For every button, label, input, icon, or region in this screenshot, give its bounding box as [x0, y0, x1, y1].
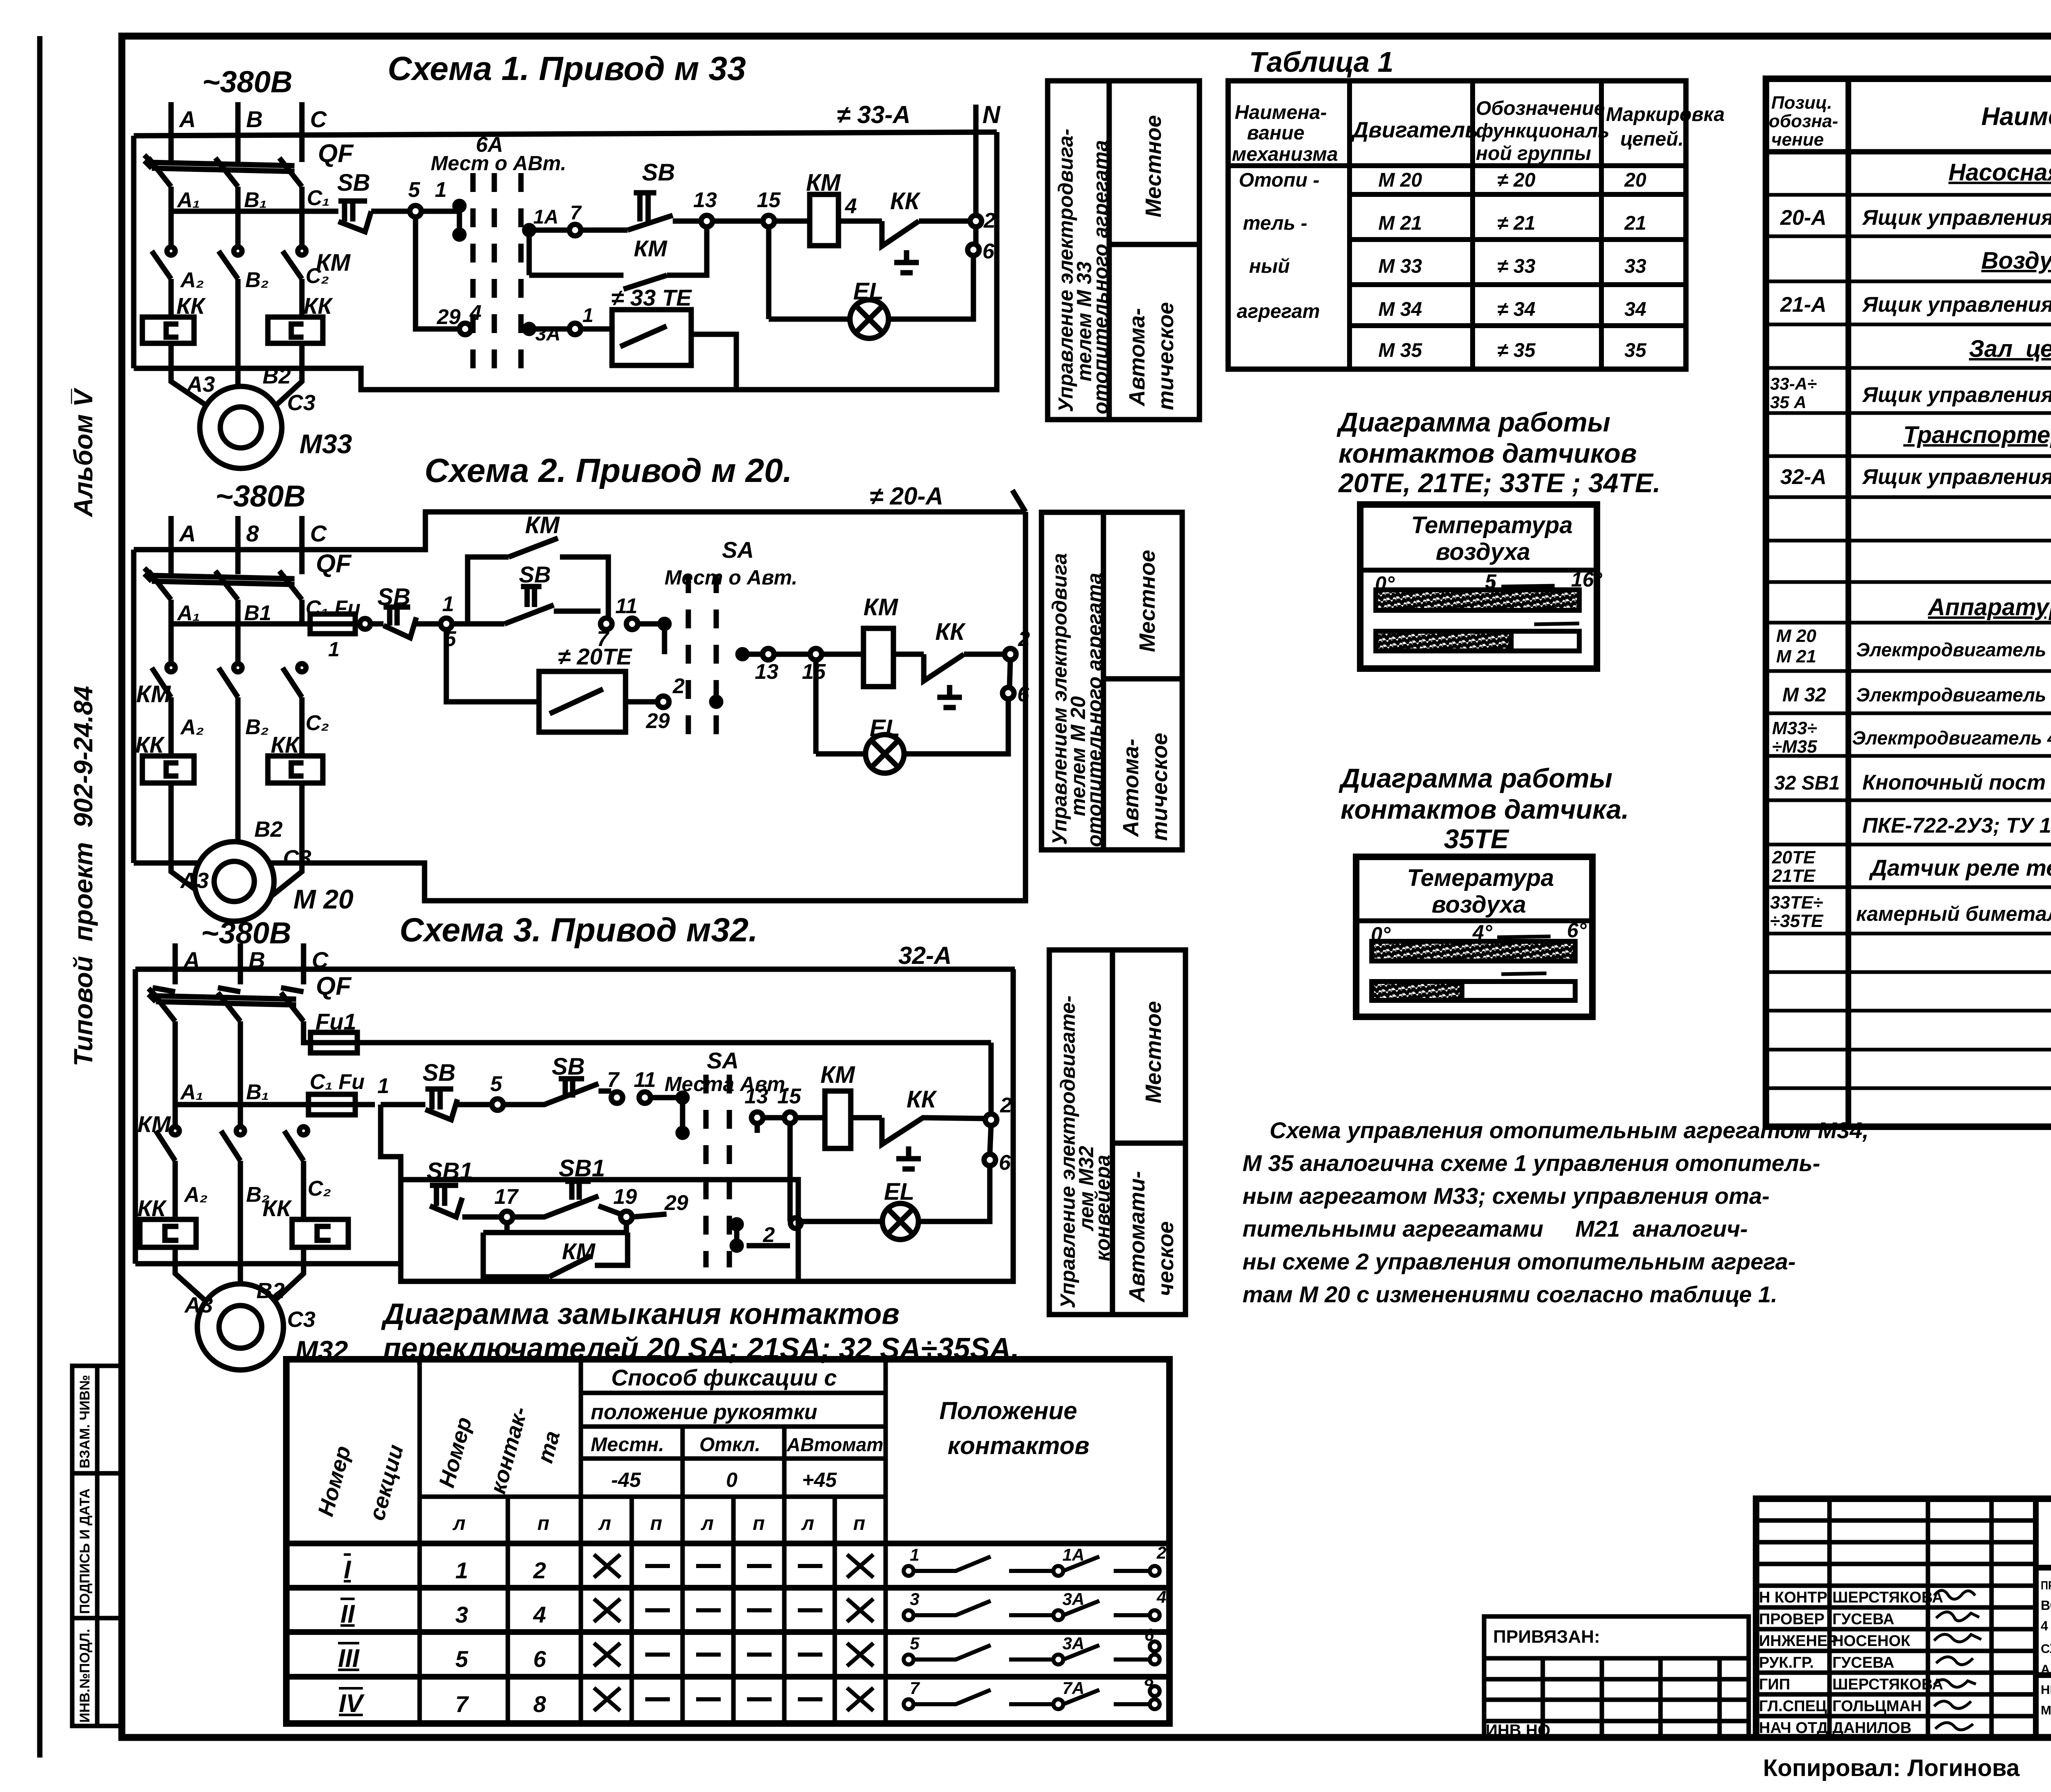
svg-text:2: 2	[672, 674, 685, 698]
CONTACTTABLE	[286, 1359, 1169, 1724]
svg-text:15: 15	[757, 188, 781, 212]
svg-text:SB1: SB1	[427, 1158, 473, 1185]
svg-text:А3: А3	[180, 868, 209, 893]
svg-text:НЫМИ АГРЕГАТАМИ М20, М21,: НЫМИ АГРЕГАТАМИ М20, М21,	[2041, 1682, 2051, 1697]
svg-text:обозна-: обозна-	[1769, 111, 1838, 131]
svg-text:32 SВ1: 32 SВ1	[1774, 772, 1840, 794]
svg-text:SB: SB	[552, 1053, 585, 1080]
wire 15 drop	[788, 1121, 793, 1221]
svg-text:Транспортерная галерея.: Транспортерная галерея.	[1903, 422, 2051, 448]
svg-text:п: п	[650, 1513, 662, 1534]
svg-text:1: 1	[435, 178, 447, 202]
svg-text:32-А: 32-А	[898, 942, 952, 969]
svg-text:КМ: КМ	[136, 681, 171, 708]
wire bottom bus	[135, 1261, 401, 1267]
svg-text:ной группы: ной группы	[1476, 143, 1591, 164]
svg-text:33ТЕ÷: 33ТЕ÷	[1770, 893, 1823, 913]
svg-text:В₂: В₂	[245, 715, 269, 739]
svg-text:Схема 2. Привод м 20.: Схема 2. Привод м 20.	[425, 452, 792, 489]
svg-text:ПРИВЯЗАН:: ПРИВЯЗАН:	[1493, 1627, 1600, 1647]
lamp EL	[790, 1178, 918, 1240]
node 7	[569, 224, 581, 236]
svg-text:функциональ: функциональ	[1476, 120, 1610, 142]
svg-text:Кнопочный пост управления: Кнопочный пост управления	[1862, 771, 2051, 794]
SCHEME1	[134, 50, 1199, 468]
svg-text:Автомати-: Автомати-	[1125, 1171, 1149, 1303]
svg-text:35ТЕ: 35ТЕ	[1444, 824, 1510, 854]
svg-text:КК: КК	[935, 619, 966, 645]
svg-text:цепей.: цепей.	[1620, 128, 1684, 150]
svg-text:С₂: С₂	[308, 1177, 331, 1201]
svg-text:М 20: М 20	[1776, 626, 1816, 646]
svg-text:3: 3	[455, 1602, 468, 1628]
TABLE1	[1228, 46, 1724, 369]
svg-text:QF: QF	[318, 139, 354, 168]
lamp EL	[816, 715, 904, 773]
svg-text:М33÷: М33÷	[1772, 718, 1817, 738]
svg-text:15: 15	[777, 1084, 802, 1108]
svg-text:Темература: Темература	[1407, 865, 1554, 891]
svg-text:29: 29	[664, 1191, 688, 1215]
node 13	[701, 215, 713, 227]
svg-text:л: л	[801, 1513, 814, 1534]
svg-text:л: л	[452, 1513, 466, 1534]
svg-text:≠ 20-А: ≠ 20-А	[870, 482, 943, 510]
LEFTCOL	[69, 387, 122, 1726]
svg-text:Автома-: Автома-	[1119, 739, 1143, 838]
svg-text:4 ЦЕНТРИФУГАМИ ОГШ-631К-02: 4 ЦЕНТРИФУГАМИ ОГШ-631К-02	[2041, 1619, 2051, 1633]
svg-text:Типовой проект 902-9-24.84: Типовой проект 902-9-24.84	[69, 686, 98, 1066]
svg-text:1: 1	[377, 1074, 389, 1098]
svg-text:SA: SA	[707, 1048, 739, 1073]
svg-text:7: 7	[607, 1068, 620, 1092]
svg-text:отопительного агрегата: отопительного агрегата	[1089, 140, 1112, 414]
svg-text:С₂: С₂	[306, 264, 329, 288]
motor M33	[186, 364, 352, 468]
node 6	[984, 1154, 996, 1166]
wire N drop	[973, 132, 979, 215]
svg-text:Электродвигатель 4А90L6У3, 1,5: Электродвигатель 4А90L6У3, 1,5кВт, ~380В	[1856, 684, 2051, 705]
svg-text:5: 5	[408, 178, 420, 202]
svg-text:SB: SB	[519, 562, 551, 587]
svg-text:17: 17	[494, 1185, 519, 1209]
node 7	[611, 1092, 623, 1103]
svg-text:п: п	[753, 1513, 765, 1534]
svg-text:QF: QF	[316, 550, 352, 578]
svg-text:С: С	[310, 520, 327, 546]
svg-text:+45: +45	[802, 1468, 837, 1491]
sensor diagram box 2	[1356, 857, 1592, 1017]
svg-text:А₂: А₂	[183, 1183, 208, 1207]
svg-text:35 А: 35 А	[1770, 393, 1807, 412]
wire left edge	[133, 969, 138, 1264]
svg-text:Мест о Авт.: Мест о Авт.	[665, 566, 797, 589]
fuse Fu (control)	[175, 1070, 365, 1115]
svg-text:ГОЛЬЦМАН: ГОЛЬЦМАН	[1832, 1698, 1922, 1715]
node 3A	[525, 324, 534, 333]
svg-text:КК: КК	[263, 1195, 292, 1221]
wire to SB	[360, 619, 370, 629]
svg-text:контактов датчиков: контактов датчиков	[1338, 438, 1637, 468]
svg-text:8: 8	[246, 520, 259, 546]
wire 13-15	[713, 219, 763, 224]
main stamp outline	[1756, 1499, 2051, 1737]
svg-text:Схема 3. Привод м32.: Схема 3. Привод м32.	[400, 911, 758, 949]
svg-text:4: 4	[469, 301, 482, 325]
fuse Fu	[171, 596, 361, 661]
svg-text:Позиц.: Позиц.	[1771, 93, 1832, 113]
svg-text:ПОДПИСЬ И ДАТА: ПОДПИСЬ И ДАТА	[77, 1488, 93, 1614]
svg-text:7: 7	[455, 1691, 469, 1717]
svg-text:20: 20	[1624, 169, 1647, 191]
document number cell	[2036, 1565, 2051, 1571]
svg-text:М 34: М 34	[1378, 299, 1422, 320]
svg-text:положение рукоятки: положение рукоятки	[591, 1400, 817, 1424]
svg-text:0: 0	[726, 1468, 738, 1491]
svg-text:В₁: В₁	[246, 1080, 269, 1104]
wire 15 drop to lamp rung	[766, 227, 772, 319]
push button SB (stop)	[337, 169, 371, 232]
svg-text:4: 4	[1156, 1587, 1166, 1607]
caption sensor 35TE	[1338, 763, 1629, 854]
node 11	[626, 618, 638, 630]
svg-text:Положение: Положение	[939, 1397, 1077, 1424]
svg-text:29: 29	[436, 305, 461, 329]
svg-text:Таблица 1: Таблица 1	[1249, 46, 1393, 78]
svg-text:В2: В2	[254, 817, 283, 842]
svg-text:КМ: КМ	[820, 1062, 856, 1088]
TITLEBLOCK	[1484, 1499, 2051, 1781]
header rows	[581, 1391, 886, 1395]
svg-text:НАЧ ОТД: НАЧ ОТД	[1759, 1719, 1828, 1737]
selector SA dashed lines	[688, 574, 716, 736]
svg-text:РУК.ГР.: РУК.ГР.	[1759, 1654, 1814, 1671]
svg-text:М 32: М 32	[1782, 684, 1826, 706]
sheet edge line	[37, 36, 43, 1758]
svg-text:6: 6	[982, 240, 995, 263]
node 6	[1003, 687, 1014, 699]
svg-text:М33: М33	[299, 429, 352, 459]
svg-text:÷35ТЕ: ÷35ТЕ	[1770, 911, 1824, 931]
svg-text:Диаграмма замыкания контактов: Диаграмма замыкания контактов	[381, 1298, 900, 1331]
column dividers	[418, 1359, 422, 1724]
privyazan table	[1484, 1616, 1749, 1739]
svg-text:3: 3	[910, 1589, 919, 1609]
project name cell	[2041, 1579, 2051, 1717]
caption sensors 20TE,21TE,33TE,34TE	[1336, 407, 1660, 498]
svg-text:Номер: Номер	[434, 1415, 477, 1491]
svg-text:А₂: А₂	[180, 268, 204, 292]
thermal relay KK heater (phase C)	[268, 732, 323, 863]
node 15	[763, 215, 774, 227]
svg-text:ШЕРСТЯКОВА: ШЕРСТЯКОВА	[1832, 1676, 1943, 1693]
svg-text:Местное: Местное	[1141, 1001, 1166, 1103]
wire to node 1	[355, 1102, 375, 1107]
svg-text:Н КОНТР: Н КОНТР	[1759, 1589, 1827, 1606]
svg-text:20ТЕ: 20ТЕ	[1772, 847, 1816, 867]
svg-text:пительными агрегатами М21: пительными агрегатами М21 аналогич-	[1242, 1216, 1748, 1242]
thermal relay KK heater (phase A)	[137, 1195, 196, 1264]
wire right rung	[738, 650, 747, 659]
node 5	[492, 1099, 503, 1110]
svg-text:SB1: SB1	[559, 1155, 605, 1182]
svg-text:там М 20 с изменениями соглас: там М 20 с изменениями согласно таблице …	[1242, 1281, 1777, 1307]
node B	[238, 943, 243, 984]
lamp EL	[769, 278, 888, 338]
svg-text:механизма: механизма	[1232, 144, 1338, 165]
svg-text:6: 6	[533, 1646, 546, 1672]
svg-text:N: N	[982, 101, 1001, 128]
node C	[299, 102, 305, 148]
svg-text:3А: 3А	[1062, 1589, 1085, 1609]
node C	[299, 516, 305, 564]
node 17	[501, 1211, 513, 1223]
SCHEME2	[134, 452, 1182, 921]
node 15	[810, 648, 822, 660]
svg-text:контак-: контак-	[486, 1404, 532, 1497]
svg-text:С3: С3	[287, 1307, 315, 1332]
thermal contact KK	[924, 619, 1005, 708]
body rows content	[338, 1556, 546, 1718]
contactor KM main contacts	[136, 664, 306, 863]
node C	[301, 943, 306, 984]
auxiliary contact KM low	[483, 1223, 628, 1277]
thermal relay KK heater (phase A)	[142, 293, 206, 343]
svg-text:3А: 3А	[1062, 1634, 1085, 1653]
svg-text:Электродвигатель 4А71В2У3 1,1к: Электродвигатель 4А71В2У3 1,1кВт; ~380В	[1852, 727, 2051, 749]
wire 13 drop	[755, 1123, 760, 1133]
svg-text:Ящик управления ЯУ5113-03А2Н: Ящик управления ЯУ5113-03А2Н	[1861, 206, 2051, 230]
svg-text:контактов: контактов	[948, 1432, 1089, 1459]
svg-text:агрегат: агрегат	[1237, 301, 1320, 322]
node 1-5	[441, 618, 452, 630]
node A	[173, 943, 178, 984]
svg-text:1А: 1А	[533, 206, 558, 228]
svg-text:тель -: тель -	[1243, 212, 1307, 234]
svg-text:воздуха: воздуха	[1432, 891, 1526, 918]
svg-text:ИНЖЕНЕР: ИНЖЕНЕР	[1759, 1632, 1838, 1650]
node 6	[968, 244, 979, 256]
svg-text:ПРОВЕР: ПРОВЕР	[1759, 1611, 1825, 1628]
svg-text:В: В	[246, 106, 263, 132]
svg-text:Номер: Номер	[313, 1443, 356, 1519]
contactor KM main contacts	[152, 247, 351, 368]
push button SB (stop)	[377, 584, 441, 638]
node 2	[970, 215, 982, 227]
push button SB	[423, 1059, 492, 1120]
svg-text:ГУСЕВА: ГУСЕВА	[1832, 1654, 1894, 1671]
contactor coil KM	[822, 594, 924, 687]
wire control tap	[171, 209, 338, 214]
svg-text:7А: 7А	[1062, 1678, 1085, 1698]
svg-text:≠ 34: ≠ 34	[1497, 299, 1535, 320]
thermal contact KK	[882, 1086, 985, 1169]
motor M32	[184, 1278, 348, 1370]
svg-text:Обозначение: Обозначение	[1476, 98, 1605, 119]
svg-text:Температура: Температура	[1411, 512, 1573, 539]
svg-text:ГЛ.СПЕЦ.: ГЛ.СПЕЦ.	[1759, 1698, 1831, 1715]
svg-text:В2: В2	[256, 1278, 285, 1303]
node 15	[784, 1112, 796, 1123]
svg-text:вание: вание	[1247, 122, 1304, 144]
push button SB1	[427, 1158, 501, 1217]
svg-text:тическое: тическое	[1153, 302, 1178, 410]
svg-text:Схема 1. Привод м 33: Схема 1. Привод м 33	[388, 50, 746, 87]
wire phase drops	[171, 600, 302, 663]
wire left edge	[131, 136, 137, 368]
thermal contact KK	[882, 188, 970, 273]
SCHEME3	[135, 911, 1185, 1370]
breaker QF	[144, 139, 354, 187]
svg-text:КК: КК	[907, 1086, 937, 1113]
svg-text:ческое: ческое	[1153, 1221, 1178, 1296]
push button SB start	[503, 1053, 611, 1105]
svg-text:13: 13	[745, 1084, 768, 1108]
svg-text:11: 11	[634, 1068, 656, 1092]
svg-text:I: I	[344, 1556, 352, 1584]
wire 29-4 branch	[416, 217, 459, 329]
control mode box scheme3	[1049, 950, 1185, 1315]
svg-text:2: 2	[1156, 1543, 1166, 1562]
svg-text:5: 5	[910, 1634, 920, 1653]
svg-text:Наимена-: Наимена-	[1235, 102, 1327, 123]
svg-text:Схема управления отопительным: Схема управления отопительным агрегатом …	[1270, 1117, 1869, 1143]
svg-text:НОСЕНОК: НОСЕНОК	[1832, 1632, 1911, 1650]
svg-text:л: л	[701, 1513, 714, 1534]
svg-text:Местное: Местное	[1135, 550, 1160, 652]
svg-text:М 20: М 20	[293, 884, 354, 914]
svg-text:÷М35: ÷М35	[1772, 737, 1817, 757]
svg-text:8: 8	[533, 1691, 546, 1717]
node 13	[763, 648, 774, 660]
sensor diagram box 1	[1360, 504, 1603, 669]
svg-text:Наименование: Наименование	[1981, 103, 2051, 131]
node 5	[410, 205, 421, 217]
temperature switch 20TE box	[446, 630, 721, 733]
wire top bus	[135, 967, 1015, 972]
svg-text:секции: секции	[365, 1442, 409, 1523]
svg-text:5: 5	[490, 1072, 502, 1096]
svg-text:SB: SB	[423, 1059, 456, 1086]
svg-text:SB: SB	[337, 169, 370, 196]
SPECTABLE	[1766, 79, 2051, 1127]
svg-text:1: 1	[910, 1545, 919, 1564]
svg-text:Копировал: Логинова: Копировал: Логинова	[1763, 1755, 2020, 1781]
svg-text:М 21: М 21	[1378, 212, 1422, 234]
svg-text:~380В: ~380В	[215, 479, 306, 513]
svg-text:11: 11	[615, 594, 637, 618]
svg-text:SA: SA	[722, 537, 754, 563]
svg-text:Маркировка: Маркировка	[1606, 104, 1724, 126]
svg-text:2: 2	[983, 209, 996, 233]
svg-text:Ящик управления ЯУ5113-03А2М: Ящик управления ЯУ5113-03А2М	[1861, 465, 2051, 489]
svg-text:М 21: М 21	[1776, 646, 1816, 667]
svg-text:В₂: В₂	[245, 268, 269, 292]
holding contact KM box	[452, 512, 608, 624]
svg-text:20ТЕ, 21ТЕ; 33ТЕ ; 34ТЕ.: 20ТЕ, 21ТЕ; 33ТЕ ; 34ТЕ.	[1338, 468, 1660, 498]
svg-text:Датчик реле температуры: Датчик реле температуры	[1869, 855, 2051, 881]
svg-text:КМ: КМ	[525, 512, 560, 539]
node 2	[1005, 648, 1016, 660]
svg-text:ным агрегатом М33; схемы упр: ным агрегатом М33; схемы управления ота-	[1242, 1183, 1770, 1209]
node A	[169, 516, 174, 564]
wire phase drops to KM	[171, 187, 302, 246]
wire 13 drop to KM aux	[667, 227, 707, 275]
temperature switch 33TE box	[611, 285, 736, 390]
svg-text:ГУСЕВА: ГУСЕВА	[1832, 1611, 1894, 1628]
svg-text:Местное: Местное	[1141, 115, 1166, 217]
svg-text:Альбом V̅: Альбом V̅	[69, 387, 98, 518]
svg-text:≠ 33 ТЕ: ≠ 33 ТЕ	[611, 285, 692, 310]
svg-text:29: 29	[646, 709, 670, 733]
svg-text:Откл.: Откл.	[699, 1434, 761, 1456]
svg-text:Двигатель: Двигатель	[1351, 118, 1478, 142]
svg-text:Зал центрифуг.: Зал центрифуг.	[1969, 336, 2051, 362]
svg-text:п: п	[853, 1513, 865, 1534]
svg-text:≠ 20: ≠ 20	[1497, 169, 1535, 191]
svg-text:С: С	[310, 106, 327, 132]
svg-text:А: А	[178, 106, 196, 132]
svg-text:тическое: тическое	[1147, 733, 1172, 841]
svg-text:Ящик управления ЯУ 5113-03А2Н: Ящик управления ЯУ 5113-03А2Н	[1861, 293, 2051, 317]
svg-text:≠ 35: ≠ 35	[1497, 340, 1536, 361]
svg-text:В₁: В₁	[244, 188, 267, 212]
svg-text:А₁: А₁	[176, 188, 200, 212]
svg-text:-45: -45	[611, 1468, 641, 1491]
stage cells	[2036, 1568, 2051, 1737]
svg-text:отопительного агрегата: отопительного агрегата	[1083, 573, 1106, 847]
svg-text:IV: IV	[339, 1689, 365, 1718]
PARA	[1242, 1117, 1869, 1307]
svg-text:2: 2	[533, 1557, 546, 1583]
wire 3A to TE	[529, 326, 569, 332]
svg-text:≠ 33-А: ≠ 33-А	[837, 101, 911, 128]
svg-text:чение: чение	[1771, 130, 1824, 150]
wire 15 drop	[813, 660, 819, 754]
svg-text:С₁ Fu: С₁ Fu	[310, 1070, 365, 1094]
contactor coil KM	[796, 1062, 882, 1148]
svg-text:камерный биметаллический ДТКБ: камерный биметаллический ДТКБ -53.	[1856, 902, 2051, 925]
svg-text:Электродвигатель 4А71В2У3, 1,1: Электродвигатель 4А71В2У3, 1,1кВт,~380В	[1856, 639, 2051, 660]
svg-text:Ящик управления ЯУ5125-03Б2Н: Ящик управления ЯУ5125-03Б2Н	[1861, 383, 2051, 407]
svg-text:ны схеме 2 управления отопите: ны схеме 2 управления отопительным агрег…	[1242, 1249, 1795, 1274]
contactor KM main contacts	[137, 1111, 308, 1264]
svg-text:7: 7	[570, 202, 582, 224]
svg-text:SB: SB	[642, 159, 675, 186]
svg-text:С₂: С₂	[306, 711, 329, 735]
svg-text:М33÷М35 И КОНВЕЙЕРОМ М 32: М33÷М35 И КОНВЕЙЕРОМ М 32	[2041, 1703, 2051, 1717]
svg-text:С3: С3	[287, 390, 315, 415]
svg-text:АВтомат.: АВтомат.	[786, 1434, 888, 1455]
svg-text:6: 6	[999, 1151, 1011, 1175]
push button SB1 second	[513, 1155, 621, 1217]
fuse Fu1	[304, 1009, 991, 1053]
thermal relay KK heater (phase A)	[135, 732, 194, 863]
contactor coil KM	[774, 169, 882, 246]
header texts	[313, 1365, 1089, 1534]
svg-text:Способ фиксации с: Способ фиксации с	[611, 1365, 837, 1390]
svg-text:~380В: ~380В	[202, 65, 292, 99]
svg-text:ВОЗДУХОДУВКАМИ ТВ-80-1,6 И: ВОЗДУХОДУВКАМИ ТВ-80-1,6 И	[2041, 1598, 2051, 1613]
svg-text:1: 1	[328, 638, 340, 661]
X and dash marks	[594, 1555, 873, 1711]
svg-text:Аппаратура по месту.: Аппаратура по месту.	[1927, 594, 2051, 621]
svg-text:контактов датчика.: контактов датчика.	[1341, 794, 1629, 824]
body rows	[286, 1541, 1169, 1546]
svg-text:Воздуходувная: Воздуходувная	[1981, 247, 2051, 274]
svg-text:4: 4	[845, 194, 857, 218]
svg-text:≠ 33: ≠ 33	[1497, 256, 1535, 277]
